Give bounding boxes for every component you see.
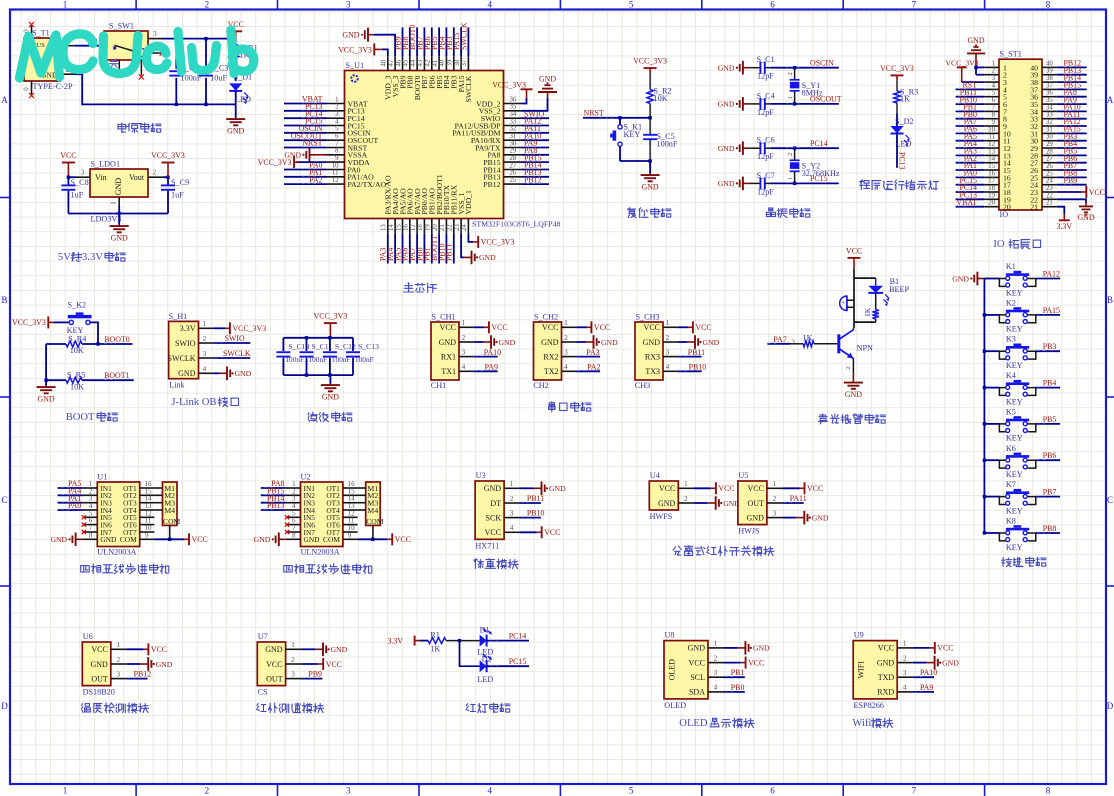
crystal Y1 8MHz — [794, 68, 796, 80]
ground GND for S_C1 — [743, 67, 750, 69]
svg-text:37: 37 — [461, 59, 468, 66]
svg-text:OLED: OLED — [668, 659, 677, 681]
wire K5 to PB5 — [1036, 423, 1060, 425]
title 按键电路 — [1002, 558, 1012, 567]
svg-text:VCC_3V3: VCC_3V3 — [151, 151, 185, 160]
svg-text:20: 20 — [432, 224, 439, 231]
svg-text:OSCIN: OSCIN — [810, 59, 834, 68]
svg-text:GND: GND — [304, 535, 321, 544]
svg-text:6: 6 — [89, 518, 93, 525]
svg-text:10: 10 — [348, 525, 355, 532]
svg-text:GND: GND — [942, 658, 959, 667]
ST1 left net labels — [956, 88, 985, 90]
svg-text:GND: GND — [114, 178, 123, 196]
svg-text:4: 4 — [203, 366, 207, 373]
svg-text:VCC: VCC — [748, 658, 764, 667]
svg-text:36: 36 — [510, 96, 517, 103]
svg-text:IO: IO — [993, 239, 1005, 250]
key K6 — [983, 459, 986, 462]
svg-text:3: 3 — [564, 349, 568, 356]
wire U2 COM to VCC — [372, 525, 374, 539]
svg-text:C: C — [1, 495, 7, 505]
svg-text:4: 4 — [666, 364, 670, 371]
svg-text:GND: GND — [601, 338, 618, 347]
svg-text:VCC: VCC — [718, 484, 734, 493]
svg-text:U5: U5 — [738, 471, 748, 480]
svg-text:VCC_3V3: VCC_3V3 — [258, 158, 292, 167]
svg-text:3.3V: 3.3V — [180, 324, 196, 333]
svg-text:35: 35 — [510, 104, 517, 111]
svg-text:GND: GND — [549, 484, 566, 493]
SW1 bottom pin right (no connect) — [140, 60, 142, 76]
svg-text:KEY: KEY — [624, 130, 641, 139]
svg-text:M4: M4 — [367, 506, 378, 515]
svg-text:Wifi: Wifi — [852, 718, 871, 729]
svg-text:2: 2 — [714, 655, 718, 662]
svg-text:ULN2003A: ULN2003A — [97, 548, 136, 557]
svg-text:KEY: KEY — [1006, 361, 1023, 370]
svg-text:BOOT0: BOOT0 — [104, 335, 129, 344]
CH1 TX net PA9 — [474, 370, 498, 372]
svg-text:S_R5: S_R5 — [67, 371, 85, 380]
filter capacitors C10-C13 100nF — [282, 338, 284, 351]
svg-text:31: 31 — [1046, 126, 1053, 133]
svg-text:DS18B20: DS18B20 — [83, 688, 115, 697]
svg-text:GND: GND — [718, 179, 735, 188]
svg-text:3: 3 — [203, 351, 207, 358]
svg-text:GND: GND — [541, 338, 559, 347]
svg-text:GND: GND — [718, 100, 735, 109]
svg-text:VCC: VCC — [689, 658, 705, 667]
svg-text:SWCLK: SWCLK — [464, 75, 473, 102]
svg-text:LED: LED — [477, 675, 493, 684]
svg-text:TYPE-C-2P: TYPE-C-2P — [33, 82, 73, 91]
svg-text:3: 3 — [291, 671, 295, 678]
svg-text:S_CH1: S_CH1 — [432, 313, 456, 322]
svg-text:17: 17 — [410, 224, 417, 231]
svg-text:2: 2 — [335, 104, 339, 111]
svg-text:K8: K8 — [1006, 517, 1016, 526]
svg-text:VCC: VCC — [485, 528, 501, 537]
svg-text:GND: GND — [499, 338, 516, 347]
driver U2 ULN2003A body — [301, 482, 343, 547]
wire VDD_3 to VCC_3V3 power — [382, 49, 388, 56]
wire pin2 to C9 node — [162, 176, 168, 178]
svg-text:GND: GND — [877, 658, 895, 667]
svg-text:24: 24 — [1046, 178, 1053, 185]
svg-text:30: 30 — [1046, 134, 1053, 141]
svg-text:10uF: 10uF — [210, 74, 227, 83]
svg-text:2: 2 — [992, 68, 996, 75]
svg-text:2: 2 — [903, 655, 907, 662]
svg-text:S_U1: S_U1 — [346, 61, 365, 70]
resistor 1K below LED — [875, 293, 877, 310]
svg-text:8: 8 — [1046, 0, 1051, 10]
header ST1 40-pin body — [999, 59, 1042, 210]
svg-text:PA0: PA0 — [68, 501, 81, 510]
svg-text:14: 14 — [145, 496, 152, 503]
svg-text:1: 1 — [203, 321, 206, 328]
svg-text:42: 42 — [425, 59, 432, 66]
wire resistor to collector node — [875, 319, 877, 322]
LED D2 run indicator — [896, 113, 898, 126]
wire VDD_1 to VCC_3V3 — [468, 234, 473, 242]
svg-text:SCL: SCL — [690, 673, 705, 682]
svg-text:8MHz: 8MHz — [802, 89, 823, 98]
svg-text:DT: DT — [490, 499, 501, 508]
svg-text:B: B — [1107, 295, 1113, 305]
svg-text:GND: GND — [50, 535, 67, 544]
svg-text:3: 3 — [714, 670, 718, 677]
svg-text:VCC: VCC — [266, 660, 282, 669]
svg-text:TX2: TX2 — [544, 367, 559, 376]
ground GND U1 pin8 — [76, 538, 83, 540]
ground GND boot — [45, 386, 47, 388]
svg-text:K6: K6 — [1006, 444, 1016, 453]
svg-text:9: 9 — [348, 532, 352, 539]
svg-text:7: 7 — [89, 525, 93, 532]
serial header CH3 body — [635, 322, 663, 380]
svg-text:GND: GND — [812, 513, 829, 522]
connector T1 (TYPE-C-2P) — [24, 38, 60, 81]
capacitor C9 1uF — [167, 177, 169, 184]
mcu U1 STM32F103C8T6 body — [345, 71, 504, 219]
svg-text:BOOT: BOOT — [66, 412, 95, 423]
svg-text:33: 33 — [1046, 112, 1053, 119]
svg-text:1K: 1K — [803, 334, 813, 343]
svg-text:9: 9 — [335, 155, 339, 162]
svg-text:GND: GND — [100, 535, 117, 544]
svg-text:GND: GND — [753, 644, 770, 653]
svg-text:COM: COM — [323, 535, 340, 544]
svg-text:CH2: CH2 — [533, 381, 548, 390]
resistor R3 1K — [896, 80, 898, 91]
LED D2 to PC15 — [460, 641, 480, 667]
svg-text:40: 40 — [439, 59, 446, 66]
resistor R5 10K — [46, 379, 66, 381]
svg-text:22: 22 — [1046, 192, 1053, 199]
svg-text:GND: GND — [111, 234, 128, 243]
svg-text:S_H1: S_H1 — [169, 312, 188, 321]
title 四相五线步进电机 (left) — [81, 566, 90, 572]
CH2 GND — [576, 341, 585, 343]
svg-text:1K: 1K — [863, 307, 872, 317]
svg-text:S_C1: S_C1 — [757, 55, 775, 64]
svg-text:HWJS: HWJS — [738, 527, 760, 536]
svg-text:RX1: RX1 — [441, 352, 456, 361]
svg-text:27: 27 — [1046, 156, 1053, 163]
svg-text:KEY: KEY — [1006, 434, 1023, 443]
svg-text:100nF: 100nF — [657, 139, 678, 148]
svg-text:1: 1 — [773, 481, 776, 488]
filter top rail — [283, 337, 353, 339]
wire K7 to PB7 — [1036, 496, 1060, 498]
title 串口电路 — [549, 402, 555, 412]
svg-text:4: 4 — [335, 118, 339, 125]
svg-text:KEY: KEY — [1006, 325, 1023, 334]
wire S_C7 to PC15 — [770, 182, 838, 184]
svg-text:S_CH3: S_CH3 — [636, 313, 660, 322]
svg-text:3: 3 — [773, 510, 777, 517]
svg-text:17: 17 — [988, 178, 995, 185]
title 四相五线步进电机 (right) — [284, 566, 293, 572]
wire K2 to BOOT0 node — [90, 322, 98, 344]
svg-text:3: 3 — [153, 31, 157, 38]
svg-text:GND: GND — [845, 390, 862, 399]
net label PA7 — [767, 343, 790, 345]
svg-text:VCC_3V3: VCC_3V3 — [945, 58, 978, 67]
svg-text:1K: 1K — [430, 644, 440, 653]
svg-text:COM: COM — [163, 517, 181, 526]
net label NRST and wire — [583, 117, 650, 119]
svg-text:VCC_3V3: VCC_3V3 — [633, 57, 667, 66]
key K2 — [983, 313, 986, 316]
svg-text:5: 5 — [629, 786, 634, 796]
svg-text:44: 44 — [410, 59, 417, 66]
wire K8 to PB8 — [1036, 532, 1060, 534]
svg-text:S_R4: S_R4 — [68, 334, 86, 343]
svg-text:5: 5 — [292, 510, 296, 517]
node between LEDs — [458, 639, 461, 642]
svg-text:BEEP: BEEP — [889, 285, 909, 294]
svg-text:PA2: PA2 — [587, 363, 600, 372]
LED D1 to PC14 — [460, 640, 480, 642]
svg-text:GND: GND — [265, 645, 283, 654]
label 关 on SW1 — [110, 59, 119, 68]
svg-text:2: 2 — [845, 366, 852, 369]
svg-text:13: 13 — [988, 148, 995, 155]
wire U1 VDD_2 to VCC_3V3 — [522, 98, 527, 104]
svg-text:23: 23 — [1046, 185, 1053, 192]
svg-text:SWIO: SWIO — [225, 334, 245, 343]
SW1 side pin (no connect) — [148, 52, 161, 54]
svg-text:8: 8 — [992, 112, 996, 119]
svg-text:12: 12 — [332, 177, 339, 184]
svg-text:1: 1 — [63, 786, 68, 796]
svg-text:2: 2 — [773, 496, 777, 503]
svg-text:VCC: VCC — [91, 645, 107, 654]
svg-text:3: 3 — [462, 349, 466, 356]
buzzer element B1 — [840, 296, 847, 311]
svg-text:S_D2: S_D2 — [895, 117, 914, 126]
svg-text:A: A — [1, 95, 8, 105]
wire K2 to PA15 — [1036, 314, 1060, 316]
key K2 boot — [53, 321, 69, 323]
svg-text:2: 2 — [203, 336, 207, 343]
svg-text:27: 27 — [510, 162, 517, 169]
svg-text:29: 29 — [1046, 141, 1053, 148]
svg-text:GND: GND — [156, 660, 173, 669]
svg-text:COM: COM — [366, 517, 384, 526]
svg-text:4: 4 — [487, 786, 492, 796]
U1 right net wires and labels — [522, 117, 550, 119]
key K1 — [984, 278, 999, 280]
svg-text:2: 2 — [205, 786, 210, 796]
svg-text:48: 48 — [381, 59, 388, 66]
svg-text:+: + — [842, 299, 846, 306]
resistor R4 10K — [46, 343, 66, 345]
H1 pin4 GND — [213, 372, 219, 374]
svg-text:S_T1: S_T1 — [32, 29, 50, 38]
svg-text:3: 3 — [335, 111, 339, 118]
svg-text:VCC: VCC — [747, 484, 763, 493]
svg-text:VCC_3V3: VCC_3V3 — [12, 318, 46, 327]
svg-text:13: 13 — [348, 503, 355, 510]
svg-text:GND: GND — [254, 535, 271, 544]
svg-text:TX3: TX3 — [645, 367, 660, 376]
svg-text:3: 3 — [992, 75, 996, 82]
svg-text:16: 16 — [348, 481, 355, 488]
svg-text:3: 3 — [81, 170, 85, 177]
svg-text:1: 1 — [117, 642, 120, 649]
svg-text:RX3: RX3 — [645, 352, 660, 361]
svg-text:1: 1 — [111, 201, 118, 204]
module U6 DS18B20 body — [82, 642, 111, 686]
svg-text:14: 14 — [348, 496, 355, 503]
svg-text:6: 6 — [335, 133, 339, 140]
ST1 right net labels — [1057, 66, 1087, 68]
capacitor C2 100nF — [175, 39, 177, 69]
svg-text:VCC: VCC — [807, 484, 823, 493]
CH3 TX net PB10 — [678, 370, 702, 372]
svg-text:HX711: HX711 — [475, 541, 499, 550]
svg-text:S_C13: S_C13 — [358, 342, 379, 351]
svg-text:1: 1 — [666, 320, 669, 327]
svg-text:PC14: PC14 — [509, 631, 527, 640]
svg-text:PB13: PB13 — [267, 501, 285, 510]
wire K1 to PA12 — [1036, 278, 1060, 280]
CH1 RX net PA10 — [474, 356, 498, 358]
svg-text:K5: K5 — [1006, 407, 1016, 416]
svg-text:2: 2 — [117, 657, 121, 664]
svg-text:28: 28 — [1046, 148, 1053, 155]
svg-text:34: 34 — [510, 111, 517, 118]
svg-text:SWIO: SWIO — [175, 339, 196, 348]
svg-text:VCC_3V3: VCC_3V3 — [338, 45, 372, 54]
H1 pin2 SWIO — [213, 342, 250, 344]
CH2 VCC — [576, 326, 587, 328]
svg-text:22: 22 — [447, 224, 454, 231]
svg-text:1: 1 — [291, 642, 294, 649]
svg-text:34: 34 — [1046, 104, 1053, 111]
svg-text:18: 18 — [988, 185, 995, 192]
svg-text:3.3V: 3.3V — [387, 636, 403, 645]
svg-text:PB10: PB10 — [689, 363, 707, 372]
svg-text:1: 1 — [684, 481, 687, 488]
title 主芯片 — [404, 283, 414, 292]
wire reset bottom — [620, 160, 650, 162]
svg-text:4: 4 — [903, 685, 907, 692]
svg-text:19: 19 — [425, 224, 432, 231]
ST1 pins with numbers — [984, 66, 999, 68]
svg-text:NPN: NPN — [857, 344, 873, 353]
svg-text:8: 8 — [89, 532, 93, 539]
svg-text:KEY: KEY — [1006, 543, 1023, 552]
wire SW1 pin3 to VCC rail — [161, 38, 236, 40]
svg-text:LED: LED — [235, 95, 251, 104]
svg-text:7: 7 — [292, 525, 296, 532]
svg-text:1uF: 1uF — [171, 190, 184, 199]
svg-text:40: 40 — [1046, 60, 1053, 67]
svg-text:VCC: VCC — [695, 323, 711, 332]
svg-text:VCC: VCC — [326, 660, 342, 669]
svg-text:Vout: Vout — [129, 173, 145, 182]
svg-text:6: 6 — [292, 518, 296, 525]
svg-text:K2: K2 — [1006, 298, 1016, 307]
resistor R2 10K — [649, 74, 651, 89]
T1 top pin 0 (no connect) — [31, 26, 33, 39]
svg-text:C: C — [1107, 495, 1113, 505]
svg-text:10: 10 — [145, 525, 152, 532]
CH2 TX net PA2 — [576, 370, 600, 372]
svg-text:3.3V: 3.3V — [1057, 222, 1073, 231]
svg-text:LDO3V3: LDO3V3 — [91, 215, 122, 224]
svg-text:U2: U2 — [301, 473, 311, 482]
title 红灯电路 — [466, 704, 476, 712]
svg-text:PA15: PA15 — [1043, 306, 1060, 315]
svg-text:GND: GND — [90, 660, 108, 669]
wire LDO ground rail — [68, 213, 168, 215]
svg-text:8: 8 — [292, 532, 296, 539]
resistor R1 1K red light — [420, 640, 428, 642]
ground GND LDO — [118, 214, 120, 225]
svg-text:VCC: VCC — [151, 645, 167, 654]
svg-text:5: 5 — [992, 90, 996, 97]
svg-text:PC14: PC14 — [810, 139, 828, 148]
svg-text:CH3: CH3 — [635, 381, 650, 390]
svg-text:GND: GND — [227, 127, 244, 136]
svg-text:GND: GND — [952, 274, 969, 283]
title 复位电路 — [628, 208, 637, 218]
svg-text:1: 1 — [992, 60, 995, 67]
svg-text:38: 38 — [454, 59, 461, 66]
svg-text:VCC_3V3: VCC_3V3 — [232, 324, 266, 333]
U1 right pins 36-25 with numbers and names — [504, 103, 522, 105]
ground GND reset — [649, 161, 651, 174]
svg-text:7: 7 — [992, 104, 996, 111]
svg-text:GND: GND — [479, 253, 496, 262]
svg-text:PA9: PA9 — [485, 363, 498, 372]
svg-text:2: 2 — [510, 496, 514, 503]
ground GND for S_C4 — [743, 103, 750, 105]
power VCC_3V3 at U1 VDDA pin9 — [296, 161, 327, 163]
svg-text:7: 7 — [912, 786, 917, 796]
svg-text:GND: GND — [439, 338, 457, 347]
svg-text:PA10: PA10 — [484, 348, 501, 357]
svg-text:10: 10 — [332, 162, 339, 169]
svg-text:COM: COM — [120, 535, 137, 544]
svg-text:20: 20 — [1003, 203, 1011, 212]
svg-text:13: 13 — [145, 503, 152, 510]
svg-text:12: 12 — [988, 141, 995, 148]
svg-text:D: D — [1107, 701, 1114, 711]
svg-text:1: 1 — [903, 641, 906, 648]
svg-text:5: 5 — [629, 0, 634, 10]
svg-text:4: 4 — [89, 503, 93, 510]
svg-text:12pF: 12pF — [757, 72, 774, 81]
svg-text:20: 20 — [988, 200, 995, 207]
svg-text:47: 47 — [388, 59, 395, 66]
resistor R1 1K — [235, 39, 237, 45]
T1 pin 1 — [60, 45, 74, 47]
svg-text:15: 15 — [348, 488, 355, 495]
svg-text:SWCLK: SWCLK — [223, 349, 251, 358]
serial header CH1 body — [431, 322, 459, 380]
svg-text:45: 45 — [403, 59, 410, 66]
svg-text:1: 1 — [714, 641, 717, 648]
svg-text:1uF: 1uF — [71, 190, 84, 199]
svg-text:1: 1 — [335, 96, 338, 103]
